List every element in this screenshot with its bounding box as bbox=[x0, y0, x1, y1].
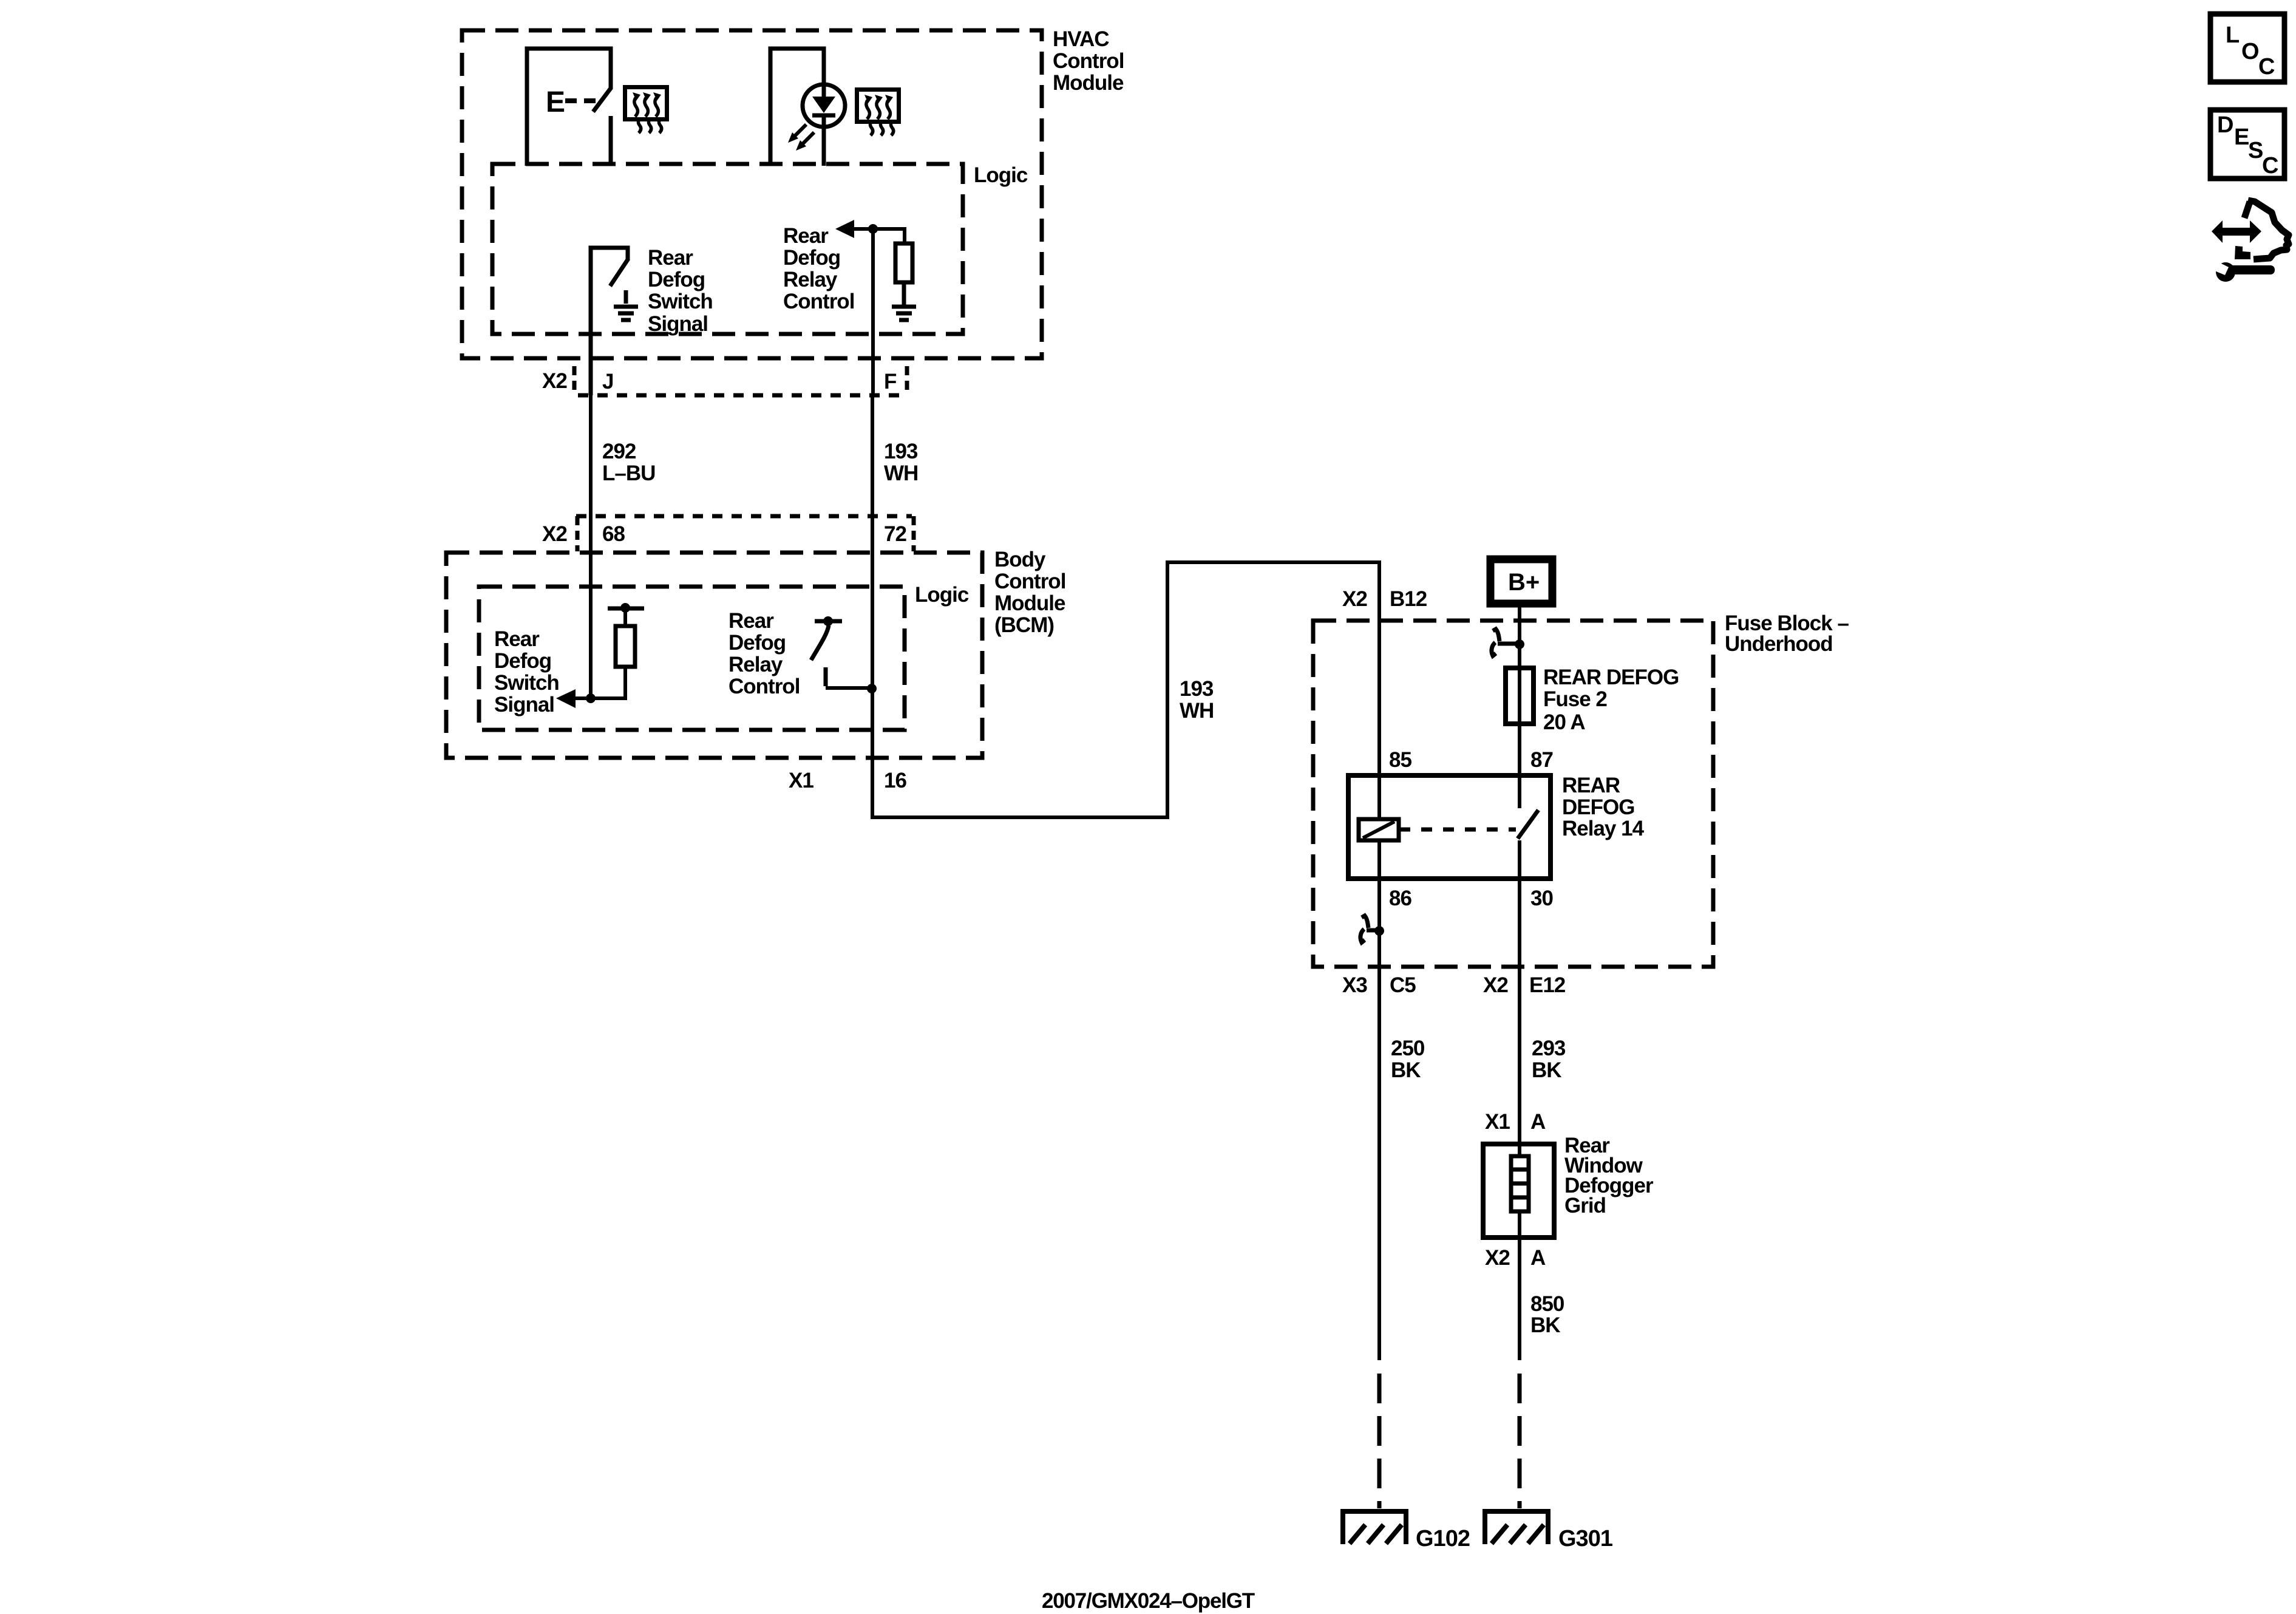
svg-text:20 A: 20 A bbox=[1543, 710, 1585, 734]
svg-text:E12: E12 bbox=[1529, 973, 1566, 997]
svg-text:X1: X1 bbox=[1485, 1110, 1510, 1134]
svg-text:O: O bbox=[2241, 39, 2260, 64]
svg-text:G301: G301 bbox=[1558, 1526, 1613, 1551]
svg-text:Control: Control bbox=[1053, 49, 1124, 73]
svg-text:BK: BK bbox=[1530, 1313, 1560, 1337]
svg-text:87: 87 bbox=[1530, 748, 1553, 772]
svg-text:Signal: Signal bbox=[494, 693, 554, 717]
svg-text:72: 72 bbox=[884, 522, 906, 546]
svg-text:2007/GMX024–OpelGT: 2007/GMX024–OpelGT bbox=[1042, 1589, 1255, 1613]
svg-text:WH: WH bbox=[884, 461, 918, 485]
svg-text:Control: Control bbox=[729, 675, 800, 698]
svg-text:Switch: Switch bbox=[648, 290, 713, 313]
svg-text:E: E bbox=[546, 86, 565, 118]
svg-text:X1: X1 bbox=[789, 769, 813, 792]
svg-text:292: 292 bbox=[602, 440, 636, 463]
svg-text:Switch: Switch bbox=[494, 671, 559, 695]
svg-text:X2: X2 bbox=[1483, 973, 1508, 997]
svg-text:WH: WH bbox=[1180, 699, 1214, 723]
svg-text:Rear: Rear bbox=[494, 627, 540, 651]
svg-text:193: 193 bbox=[884, 440, 918, 463]
svg-text:16: 16 bbox=[884, 769, 906, 792]
svg-text:Defog: Defog bbox=[783, 246, 840, 270]
svg-text:A: A bbox=[1530, 1246, 1546, 1270]
svg-text:293: 293 bbox=[1532, 1037, 1566, 1060]
svg-text:850: 850 bbox=[1530, 1292, 1564, 1316]
svg-text:A: A bbox=[1530, 1110, 1546, 1134]
svg-text:Underhood: Underhood bbox=[1725, 632, 1833, 656]
svg-text:X2: X2 bbox=[542, 522, 567, 546]
svg-text:REAR DEFOG: REAR DEFOG bbox=[1543, 666, 1679, 689]
svg-text:Body: Body bbox=[994, 548, 1046, 571]
svg-text:Defog: Defog bbox=[494, 649, 551, 673]
svg-text:Signal: Signal bbox=[648, 312, 708, 336]
svg-text:X2: X2 bbox=[1485, 1246, 1510, 1270]
svg-text:C: C bbox=[2258, 54, 2275, 80]
svg-text:HVAC: HVAC bbox=[1053, 27, 1109, 51]
svg-text:68: 68 bbox=[602, 522, 625, 546]
svg-text:S: S bbox=[2248, 138, 2263, 163]
svg-text:(BCM): (BCM) bbox=[994, 613, 1054, 637]
svg-text:Logic: Logic bbox=[974, 163, 1028, 187]
svg-text:Relay 14: Relay 14 bbox=[1562, 817, 1645, 840]
svg-text:Rear: Rear bbox=[783, 224, 829, 248]
svg-text:D: D bbox=[2217, 112, 2233, 138]
svg-text:Relay: Relay bbox=[729, 653, 783, 676]
svg-text:250: 250 bbox=[1391, 1037, 1425, 1060]
svg-text:Relay: Relay bbox=[783, 268, 838, 291]
svg-text:DEFOG: DEFOG bbox=[1562, 795, 1634, 819]
svg-text:X2: X2 bbox=[1342, 587, 1367, 611]
svg-text:Defog: Defog bbox=[729, 631, 786, 655]
svg-text:85: 85 bbox=[1389, 748, 1411, 772]
svg-text:C5: C5 bbox=[1390, 973, 1416, 997]
svg-text:Module: Module bbox=[994, 591, 1065, 615]
svg-text:REAR: REAR bbox=[1562, 774, 1620, 797]
svg-text:Grid: Grid bbox=[1564, 1194, 1606, 1217]
svg-text:BK: BK bbox=[1532, 1058, 1561, 1082]
svg-text:X2: X2 bbox=[542, 369, 567, 393]
svg-text:Module: Module bbox=[1053, 71, 1124, 95]
svg-text:Control: Control bbox=[994, 570, 1065, 593]
svg-text:F: F bbox=[884, 370, 897, 393]
svg-text:Defog: Defog bbox=[648, 268, 705, 291]
svg-text:E: E bbox=[2234, 124, 2249, 150]
svg-text:193: 193 bbox=[1180, 677, 1214, 701]
svg-text:L: L bbox=[2226, 22, 2240, 48]
svg-text:C: C bbox=[2262, 153, 2278, 179]
svg-text:G102: G102 bbox=[1416, 1526, 1470, 1551]
svg-text:J: J bbox=[602, 370, 613, 393]
svg-text:B12: B12 bbox=[1390, 587, 1427, 611]
svg-text:B+: B+ bbox=[1508, 569, 1540, 596]
svg-text:Logic: Logic bbox=[915, 583, 969, 607]
svg-text:BK: BK bbox=[1391, 1058, 1421, 1082]
svg-text:Control: Control bbox=[783, 290, 854, 313]
svg-text:X3: X3 bbox=[1342, 973, 1367, 997]
svg-text:Fuse 2: Fuse 2 bbox=[1543, 687, 1607, 711]
svg-text:L–BU: L–BU bbox=[602, 461, 655, 485]
svg-text:Rear: Rear bbox=[648, 246, 693, 270]
svg-text:Rear: Rear bbox=[729, 609, 774, 633]
svg-text:30: 30 bbox=[1530, 887, 1553, 910]
svg-text:86: 86 bbox=[1389, 887, 1411, 910]
